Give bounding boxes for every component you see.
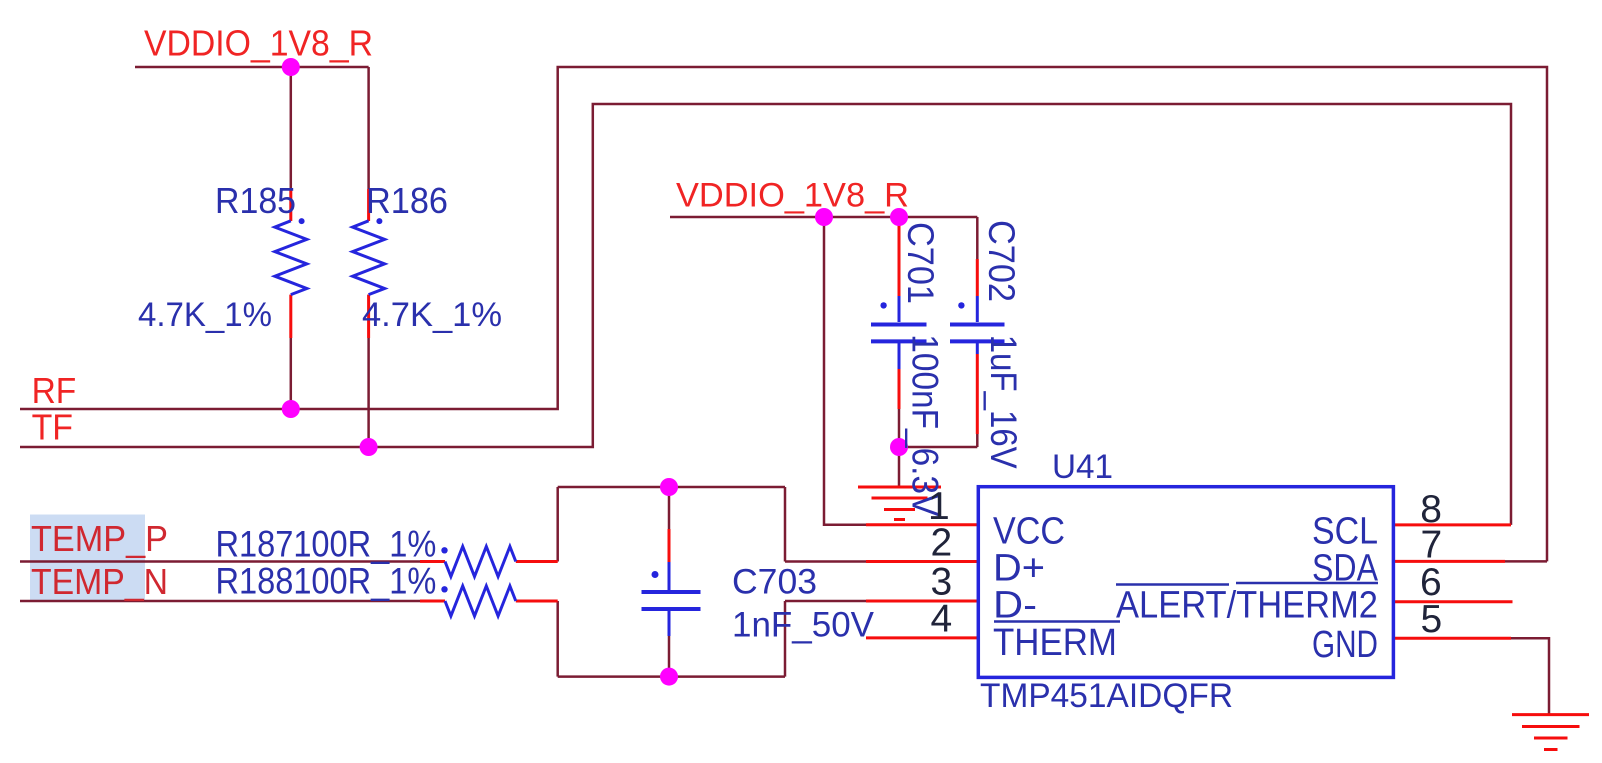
svg-text:TF: TF <box>32 407 73 448</box>
svg-text:VDDIO_1V8_R: VDDIO_1V8_R <box>144 23 373 64</box>
svg-text:VDDIO_1V8_R: VDDIO_1V8_R <box>676 177 909 215</box>
svg-text:R186: R186 <box>366 180 448 221</box>
svg-text:U41: U41 <box>1052 448 1113 486</box>
svg-text:4: 4 <box>931 598 953 641</box>
svg-text:C701: C701 <box>900 222 941 304</box>
svg-text:1uF_16V: 1uF_16V <box>983 335 1024 469</box>
svg-text:R187100R_1%: R187100R_1% <box>216 524 437 565</box>
svg-text:C703: C703 <box>732 563 817 602</box>
svg-text:R185: R185 <box>215 180 296 221</box>
svg-text:D-: D- <box>993 585 1037 627</box>
svg-text:ALERT/THERM2: ALERT/THERM2 <box>1116 585 1378 627</box>
svg-text:D+: D+ <box>993 548 1045 590</box>
svg-text:SCL: SCL <box>1312 511 1378 553</box>
svg-text:VCC: VCC <box>993 511 1065 553</box>
svg-text:4.7K_1%: 4.7K_1% <box>138 296 272 334</box>
svg-text:TEMP_N: TEMP_N <box>31 561 168 602</box>
svg-text:TMP451AIDQFR: TMP451AIDQFR <box>980 677 1233 715</box>
svg-text:R188100R_1%: R188100R_1% <box>216 561 437 602</box>
svg-text:C702: C702 <box>981 220 1022 302</box>
svg-text:THERM: THERM <box>993 622 1117 664</box>
svg-text:1nF_50V: 1nF_50V <box>732 606 875 645</box>
svg-text:SDA: SDA <box>1312 548 1379 590</box>
svg-text:2: 2 <box>931 522 953 565</box>
svg-text:RF: RF <box>32 370 77 411</box>
svg-text:TEMP_P: TEMP_P <box>31 518 168 559</box>
svg-text:5: 5 <box>1421 598 1443 641</box>
svg-text:4.7K_1%: 4.7K_1% <box>362 296 502 334</box>
svg-text:GND: GND <box>1312 624 1378 666</box>
